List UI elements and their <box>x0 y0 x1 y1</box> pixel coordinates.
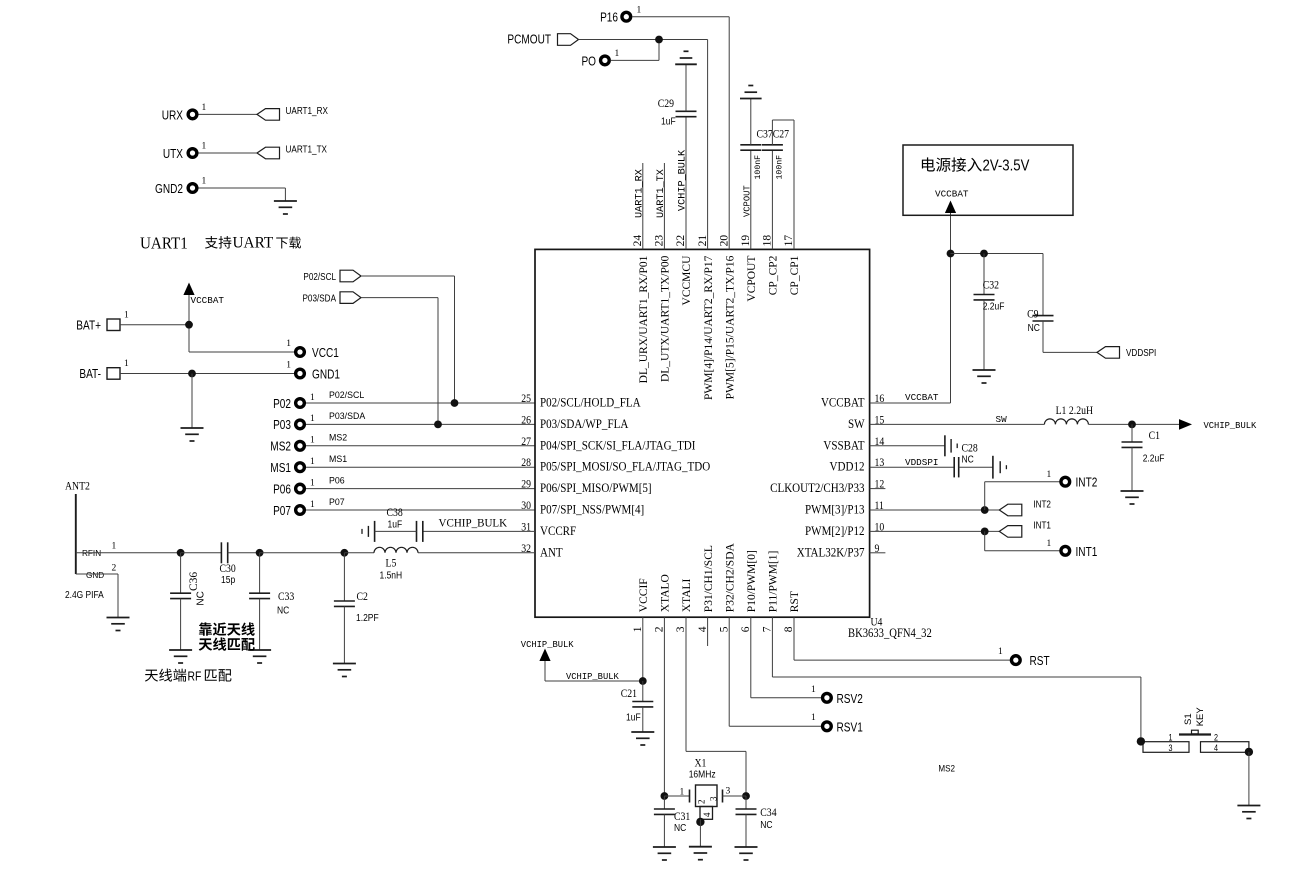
connector BAT+ <box>76 311 129 333</box>
crystal X1 16MHz <box>664 757 746 819</box>
svg-text:2V-3.5V: 2V-3.5V <box>983 158 1030 175</box>
svg-text:C29: C29 <box>658 97 674 110</box>
svg-text:PWM[2]/P12: PWM[2]/P12 <box>805 523 864 538</box>
net label VCPOUT vertical <box>742 185 752 217</box>
svg-text:RF: RF <box>188 669 202 683</box>
ground at C21 <box>631 732 654 745</box>
svg-text:P05/SPI_MOSI/SO_FLA/JTAG_TDO: P05/SPI_MOSI/SO_FLA/JTAG_TDO <box>540 459 710 474</box>
svg-text:VCCBAT: VCCBAT <box>935 189 969 200</box>
port RST <box>998 647 1050 668</box>
svg-text:3: 3 <box>675 626 687 632</box>
port INT2 <box>1047 470 1098 490</box>
svg-text:P02/SCL/HOLD_FLA: P02/SCL/HOLD_FLA <box>540 395 641 410</box>
power VCCBAT (left) <box>183 283 224 307</box>
svg-text:VCCBAT: VCCBAT <box>905 392 939 403</box>
svg-text:INT1: INT1 <box>1033 520 1051 531</box>
svg-text:29: 29 <box>521 478 531 491</box>
capacitor C38 1uF <box>362 506 423 542</box>
wire pin2 down to crystal <box>663 617 665 796</box>
wire pin4 stub <box>707 617 709 646</box>
wire crystal pin4 to ground <box>699 819 701 846</box>
svg-text:RST: RST <box>789 591 801 612</box>
note 支持UART下载 <box>205 235 301 252</box>
wire S1 to ground <box>1248 752 1250 806</box>
capacitor C36 NC <box>170 553 206 650</box>
svg-text:1: 1 <box>310 500 315 510</box>
U4 left pin labels & numbers 25-32 <box>521 392 710 559</box>
port P07 <box>273 500 315 518</box>
net label VCHIP_BULK on wire <box>566 672 620 682</box>
svg-text:1: 1 <box>998 647 1003 657</box>
tag P03/SDA <box>302 292 361 304</box>
wire pin22 up to C29 <box>685 117 687 249</box>
wire BAT- to GND1 <box>120 373 296 375</box>
capacitor C33 NC <box>249 553 294 650</box>
ground at GND2 <box>274 201 297 214</box>
svg-text:1: 1 <box>615 49 620 59</box>
wire PCMOUT to pin21 <box>579 40 708 250</box>
svg-text:PCMOUT: PCMOUT <box>507 34 551 47</box>
svg-text:XTALO: XTALO <box>660 574 672 612</box>
wire pin15 SW to L1 <box>870 423 1045 425</box>
svg-text:CP_CP2: CP_CP2 <box>768 255 780 295</box>
port MS2 <box>270 436 315 454</box>
svg-text:P06: P06 <box>273 483 291 496</box>
net label VCHIP_BULK vertical <box>678 149 689 211</box>
svg-text:2: 2 <box>697 800 707 805</box>
svg-text:P02: P02 <box>273 398 291 411</box>
svg-text:KEY: KEY <box>1195 707 1206 727</box>
wire P03/SDA tag to pin26 <box>361 298 438 425</box>
port P03 <box>273 414 315 432</box>
svg-text:1: 1 <box>202 103 207 113</box>
ground at antenna <box>107 618 130 631</box>
wire URX to tag <box>199 113 258 115</box>
junction PO/PCMOUT <box>655 36 663 44</box>
net label P06 <box>329 475 345 485</box>
svg-text:NC: NC <box>1028 322 1041 333</box>
svg-text:P03/SDA: P03/SDA <box>329 411 365 421</box>
svg-text:1: 1 <box>310 436 315 446</box>
svg-text:1: 1 <box>632 626 644 632</box>
tag VDDSPI <box>1097 347 1156 359</box>
ground at C2 <box>333 664 356 677</box>
svg-text:VCCBAT: VCCBAT <box>191 295 225 306</box>
U4 top pin labels & numbers 24-17 <box>632 235 801 400</box>
svg-text:VCHIP_BULK: VCHIP_BULK <box>1204 421 1258 431</box>
wire pin6 to RSV2 <box>751 617 822 698</box>
wire P16 to pin20 <box>632 17 729 250</box>
svg-text:1: 1 <box>286 361 291 371</box>
svg-text:P03: P03 <box>273 419 291 432</box>
wire VCHIP_BULK arrow to pin1 junction <box>545 661 643 681</box>
net label SW <box>996 414 1008 425</box>
svg-text:19: 19 <box>740 235 752 247</box>
svg-text:1: 1 <box>680 788 685 798</box>
svg-text:1: 1 <box>124 311 129 321</box>
junction C1 <box>1128 421 1136 429</box>
svg-text:2: 2 <box>1214 733 1218 743</box>
svg-text:1: 1 <box>124 359 129 369</box>
svg-text:7: 7 <box>762 626 774 632</box>
ground at C36 <box>169 650 192 663</box>
svg-text:27: 27 <box>521 435 531 448</box>
svg-text:1: 1 <box>310 457 315 467</box>
svg-text:1: 1 <box>310 393 315 403</box>
svg-text:VCHIP_BULK: VCHIP_BULK <box>439 517 508 529</box>
svg-text:P06/SPI_MISO/PWM[5]: P06/SPI_MISO/PWM[5] <box>540 480 652 495</box>
capacitor C31 NC <box>654 796 690 847</box>
svg-text:1: 1 <box>811 713 816 723</box>
wire pin3 to crystal right <box>686 617 746 796</box>
wire RFIN to junctions <box>76 552 181 554</box>
U4 bottom pin labels & numbers 1-8 <box>632 542 801 632</box>
svg-text:1.2PF: 1.2PF <box>356 612 379 623</box>
svg-text:2.2uF: 2.2uF <box>983 301 1005 312</box>
svg-text:1: 1 <box>1169 733 1173 743</box>
svg-text:XTAL32K/P37: XTAL32K/P37 <box>797 544 865 559</box>
svg-text:DL_UTX/UART1_TX/P00: DL_UTX/UART1_TX/P00 <box>660 255 672 382</box>
wire MS1 to pin28 <box>306 466 535 468</box>
wire C9 to VDDSPI tag <box>1043 351 1097 353</box>
wire PO up to PCMOUT wire <box>611 40 660 61</box>
wire pin13 VDDSPI <box>870 466 955 468</box>
ground at C33 <box>248 650 271 663</box>
svg-text:P32/CH2/SDA: P32/CH2/SDA <box>724 542 736 612</box>
junction VCCBAT 1 <box>947 250 955 258</box>
wire C29 to top ground <box>685 64 687 111</box>
svg-text:L5: L5 <box>386 557 397 570</box>
svg-text:17: 17 <box>783 235 795 247</box>
svg-text:VDDSPI: VDDSPI <box>1126 347 1156 358</box>
svg-text:C34: C34 <box>760 806 777 819</box>
label MS2 (stray net) <box>938 763 955 774</box>
port RSV1 <box>811 713 863 735</box>
wire pin1 down to junction <box>642 617 644 681</box>
ground at C32 <box>973 370 996 383</box>
svg-text:GND2: GND2 <box>155 183 183 196</box>
svg-text:3: 3 <box>1169 743 1173 753</box>
junction INT1 <box>981 528 989 536</box>
svg-text:L1 2.2uH: L1 2.2uH <box>1056 405 1094 418</box>
svg-text:VCCIF: VCCIF <box>638 578 650 612</box>
svg-text:22: 22 <box>675 235 687 247</box>
capacitor C34 NC <box>736 796 778 847</box>
tag UART1_TX <box>257 144 327 159</box>
port VCC1 <box>286 339 339 360</box>
svg-text:25: 25 <box>521 392 531 405</box>
wire MS2 to pin27 <box>306 445 535 447</box>
ground above C29 (inverted) <box>675 51 697 64</box>
svg-text:P07: P07 <box>273 505 291 518</box>
svg-text:INT2: INT2 <box>1076 477 1098 490</box>
ground at BAT- <box>181 428 204 441</box>
antenna ANT2 <box>65 480 90 574</box>
wire L1 to VCHIP_BULK arrow <box>1088 423 1179 425</box>
port RSV2 <box>811 685 863 706</box>
port GND2 <box>155 177 206 197</box>
port P06 <box>273 478 315 496</box>
svg-text:SW: SW <box>996 414 1008 425</box>
svg-text:1: 1 <box>637 5 642 15</box>
wire C33 junction to C2 junction <box>260 552 345 554</box>
title UART1 <box>140 235 188 253</box>
svg-text:1: 1 <box>310 478 315 488</box>
wire GND down to ground <box>76 574 118 618</box>
junction C21 <box>639 677 647 685</box>
tag P02/SCL <box>303 270 361 282</box>
svg-text:GND: GND <box>86 571 104 580</box>
svg-text:C9: C9 <box>1027 308 1038 321</box>
svg-text:1: 1 <box>202 177 207 187</box>
svg-text:VDD12: VDD12 <box>830 459 865 474</box>
svg-text:UART1_RX: UART1_RX <box>286 105 328 116</box>
wire GND2 to ground <box>199 188 286 201</box>
wire C27 top to pin17 <box>772 120 794 249</box>
svg-text:PWM[3]/P13: PWM[3]/P13 <box>805 502 864 517</box>
junction crystal pin4 <box>696 818 704 826</box>
junction C2/L5 <box>341 549 349 557</box>
capacitor C28 NC (pin14) <box>945 435 978 464</box>
svg-text:15p: 15p <box>221 574 235 585</box>
net label MS1 <box>329 454 347 464</box>
svg-text:VCCMCU: VCCMCU <box>681 255 693 306</box>
U4 right pin labels & numbers 16-9 <box>770 392 885 559</box>
svg-text:S1: S1 <box>1183 713 1194 725</box>
svg-text:NC: NC <box>277 605 290 616</box>
svg-text:21: 21 <box>697 235 709 247</box>
ground at S1 <box>1237 806 1260 819</box>
svg-text:VCHIP_BULK: VCHIP_BULK <box>566 672 620 682</box>
svg-text:P06: P06 <box>329 475 345 485</box>
svg-text:C21: C21 <box>621 687 637 700</box>
capacitor C1 2.2uF <box>1122 424 1165 491</box>
svg-text:2: 2 <box>112 564 117 574</box>
net label P03/SDA <box>329 411 365 421</box>
wire P07 to pin30 <box>306 509 535 511</box>
svg-text:INT1: INT1 <box>1076 546 1098 559</box>
port GND1 <box>286 361 340 382</box>
svg-text:20: 20 <box>718 235 730 247</box>
wire pin14 stub <box>870 445 945 447</box>
capacitor C9 NC <box>1027 254 1053 353</box>
svg-text:1: 1 <box>310 414 315 424</box>
svg-text:5: 5 <box>718 626 730 632</box>
svg-text:30: 30 <box>521 499 531 512</box>
junction BAT+/VCCBAT <box>185 321 193 329</box>
svg-text:1.5nH: 1.5nH <box>380 570 403 581</box>
svg-text:3: 3 <box>709 796 719 801</box>
ground at crystal <box>689 847 712 860</box>
svg-text:2.4G PIFA: 2.4G PIFA <box>65 589 104 601</box>
svg-text:P10/PWM[0]: P10/PWM[0] <box>746 550 758 612</box>
svg-text:C38: C38 <box>387 506 403 519</box>
svg-text:VDDSPI: VDDSPI <box>905 457 938 468</box>
svg-text:UART: UART <box>233 235 274 252</box>
svg-text:23: 23 <box>654 235 666 247</box>
junction S1 right <box>1245 748 1253 756</box>
port PO <box>581 49 619 69</box>
wire UTX to tag <box>199 152 258 154</box>
ground at C34 <box>735 847 758 860</box>
svg-text:VCHIP_BULK: VCHIP_BULK <box>521 640 575 650</box>
net label P02/SCL <box>329 390 364 400</box>
svg-text:NC: NC <box>962 454 975 465</box>
svg-text:16MHz: 16MHz <box>689 769 716 780</box>
label C37 C27 <box>757 128 790 141</box>
capacitor on pin13 wire <box>954 456 1006 479</box>
svg-text:C37C27: C37C27 <box>757 128 790 141</box>
svg-text:8: 8 <box>783 626 795 632</box>
svg-text:1: 1 <box>811 685 816 695</box>
svg-text:P07: P07 <box>329 497 345 507</box>
svg-text:INT2: INT2 <box>1033 498 1051 509</box>
wire junction up to port INT2 <box>985 482 1060 510</box>
note 靠近天线/天线匹配 <box>199 622 255 650</box>
svg-text:ANT2: ANT2 <box>65 480 90 493</box>
net label RFIN pin1 <box>82 542 117 559</box>
svg-text:1: 1 <box>112 542 117 552</box>
wire BAT- junction down <box>191 374 193 429</box>
tag INT2 <box>999 498 1051 515</box>
port INT1 <box>1047 539 1098 559</box>
connector BAT- <box>79 359 129 381</box>
port UTX <box>163 142 207 162</box>
svg-text:VCCRF: VCCRF <box>540 523 576 538</box>
svg-text:C28: C28 <box>962 442 978 455</box>
net label MS2 <box>329 433 347 443</box>
capacitor C2 1.2PF <box>334 553 379 664</box>
svg-text:C36: C36 <box>188 572 200 591</box>
port URX <box>162 103 207 123</box>
svg-text:C2: C2 <box>357 590 368 603</box>
svg-text:28: 28 <box>521 457 531 470</box>
junction crystal right <box>742 792 750 800</box>
wire pin11 to INT2 <box>870 509 1000 511</box>
svg-text:P11/PWM[1]: P11/PWM[1] <box>768 551 780 613</box>
svg-text:C30: C30 <box>220 562 236 575</box>
wire pin7 to key S1 <box>772 617 1141 741</box>
svg-text:CP_CP1: CP_CP1 <box>789 255 801 295</box>
svg-text:SW: SW <box>848 416 865 431</box>
svg-text:VCPOUT: VCPOUT <box>746 256 758 302</box>
svg-text:UART1_TX: UART1_TX <box>286 144 327 155</box>
svg-text:1uF: 1uF <box>388 519 403 530</box>
svg-text:P07/SPI_NSS/PWM[4]: P07/SPI_NSS/PWM[4] <box>540 502 644 517</box>
wire VCCBAT arrow down to VCC1 <box>189 295 296 352</box>
svg-text:PO: PO <box>581 55 596 68</box>
svg-text:BAT+: BAT+ <box>76 320 101 333</box>
wire junction to C30 <box>181 552 222 554</box>
svg-text:NC: NC <box>674 822 687 833</box>
svg-text:MS1: MS1 <box>329 454 347 464</box>
wire pin12 stub <box>870 488 886 490</box>
svg-text:4: 4 <box>702 812 712 817</box>
svg-text:100nF: 100nF <box>775 155 784 180</box>
wire L5 to pin32 <box>418 552 535 554</box>
svg-text:PWM[5]/P15/UART2_TX/P16: PWM[5]/P15/UART2_TX/P16 <box>724 255 736 399</box>
svg-text:NC: NC <box>760 819 773 830</box>
inductor L1 2.2uH <box>1044 405 1093 425</box>
net label UART1_RX vertical <box>634 169 645 218</box>
net label VCHIP_BULK on pin31 wire <box>439 517 508 529</box>
svg-text:1: 1 <box>202 142 207 152</box>
switch S1 KEY <box>1143 707 1249 753</box>
svg-text:MS1: MS1 <box>270 462 291 475</box>
wire junction down to port INT1 <box>985 531 1060 550</box>
tag INT1 <box>999 520 1051 537</box>
svg-text:4: 4 <box>1214 743 1218 753</box>
wire pin31 to C38 <box>423 530 535 532</box>
wire pin8 to RST <box>794 617 1011 660</box>
port MS1 <box>270 457 315 475</box>
svg-text:P02/SCL: P02/SCL <box>329 390 364 400</box>
power VCHIP_BULK (bottom) <box>521 640 575 661</box>
capacitor C32 2.2uF <box>974 254 1005 371</box>
svg-text:1uF: 1uF <box>661 116 676 127</box>
junction pin26/P03SDA <box>434 421 442 429</box>
svg-text:3: 3 <box>726 787 731 797</box>
svg-text:2: 2 <box>654 626 666 632</box>
ground above C37 (inverted) <box>740 86 762 99</box>
wire pin9 stub <box>870 552 886 554</box>
wire P06 to pin29 <box>306 488 535 490</box>
junction BAT- <box>188 370 196 378</box>
wire pin5 to RSV1 <box>729 617 821 726</box>
wire BAT+ to junction <box>120 324 189 326</box>
svg-text:18: 18 <box>762 235 774 247</box>
svg-text:C33: C33 <box>278 590 294 603</box>
svg-text:P03/SDA: P03/SDA <box>302 293 336 304</box>
svg-text:UTX: UTX <box>163 148 183 161</box>
net label GND pin2 <box>86 564 117 581</box>
svg-text:1: 1 <box>1047 470 1052 480</box>
net label VDDSPI on pin13 wire <box>905 457 938 468</box>
svg-text:P04/SPI_SCK/SI_FLA/JTAG_TDI: P04/SPI_SCK/SI_FLA/JTAG_TDI <box>540 437 695 452</box>
power VCCBAT (top right) <box>935 189 969 214</box>
junction C36 <box>177 549 185 557</box>
junction VCCBAT 2 <box>980 250 988 258</box>
net label UART1_TX vertical <box>656 169 667 218</box>
svg-text:UART1_TX: UART1_TX <box>656 169 667 218</box>
wire pin23 stub (UART1_TX) <box>663 163 665 249</box>
svg-text:26: 26 <box>521 414 531 427</box>
svg-text:X1: X1 <box>695 757 707 770</box>
svg-text:100nF: 100nF <box>754 155 763 180</box>
junction crystal left <box>661 792 669 800</box>
svg-text:MS2: MS2 <box>938 763 955 774</box>
power box 电源接入2V-3.5V <box>903 145 1073 215</box>
svg-text:C32: C32 <box>983 279 999 292</box>
inductor L5 1.5nH <box>344 547 418 580</box>
svg-text:UART1_RX: UART1_RX <box>634 169 645 218</box>
tag UART1_RX <box>257 105 328 120</box>
svg-text:UART1: UART1 <box>140 235 188 253</box>
svg-text:RSV1: RSV1 <box>837 721 863 734</box>
svg-text:2.2uF: 2.2uF <box>1143 453 1165 464</box>
svg-text:DL_URX/UART1_RX/P01: DL_URX/UART1_RX/P01 <box>638 255 650 383</box>
svg-text:1uF: 1uF <box>626 712 641 723</box>
wire VCCBAT junctions horizontal <box>951 253 1044 255</box>
capacitor C29 1uF <box>658 97 697 126</box>
wire pin16 to VCCBAT riser <box>870 213 951 403</box>
capacitor C27 100nF <box>762 145 785 180</box>
port P02 <box>273 393 315 411</box>
net label VCCBAT on pin16 wire <box>905 392 939 403</box>
ground at C1 <box>1121 491 1144 504</box>
svg-text:VCCBAT: VCCBAT <box>821 395 865 410</box>
wire pin24 stub (UART1_RX) <box>642 163 644 249</box>
